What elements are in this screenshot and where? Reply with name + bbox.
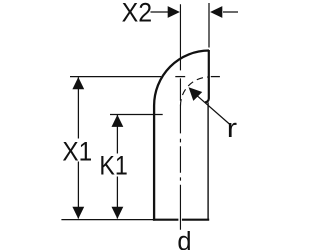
svg-text:X1: X1 (62, 136, 92, 166)
svg-text:r: r (227, 113, 237, 143)
svg-text:X2: X2 (122, 0, 153, 27)
svg-text:K1: K1 (99, 151, 127, 181)
svg-text:d: d (177, 228, 191, 250)
